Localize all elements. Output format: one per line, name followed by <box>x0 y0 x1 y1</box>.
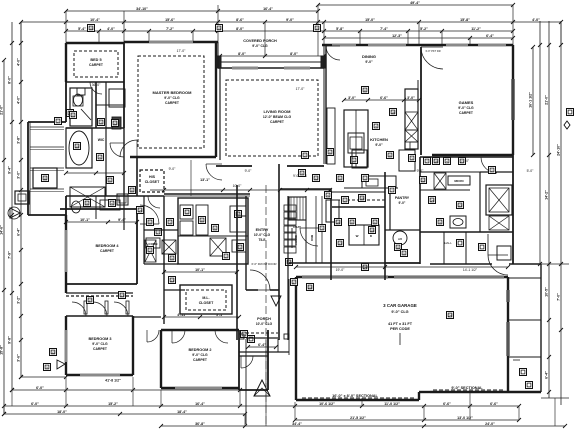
svg-text:4'-0": 4'-0" <box>17 58 21 66</box>
svg-text:CLOSET: CLOSET <box>199 301 214 305</box>
svg-text:3'-8": 3'-8" <box>17 136 21 144</box>
svg-text:12: 12 <box>51 350 55 354</box>
svg-text:3'-2": 3'-2" <box>17 296 21 304</box>
svg-text:13: 13 <box>458 203 462 207</box>
svg-text:9'-4": 9'-4" <box>8 166 12 174</box>
svg-text:10'-0" CLG: 10'-0" CLG <box>256 322 273 326</box>
svg-text:9'-0" CLG: 9'-0" CLG <box>458 106 474 110</box>
svg-text:18: 18 <box>391 110 395 114</box>
svg-text:15'-8": 15'-8" <box>0 345 4 355</box>
svg-text:18'-4": 18'-4" <box>177 410 187 414</box>
svg-text:8'-0": 8'-0" <box>238 52 246 56</box>
svg-text:17'-0": 17'-0" <box>177 49 186 53</box>
svg-text:COAT: COAT <box>293 225 301 229</box>
svg-text:MUD: MUD <box>310 235 314 241</box>
svg-text:CARPET: CARPET <box>89 63 104 67</box>
svg-text:MICRO: MICRO <box>454 179 464 183</box>
svg-text:14'-2": 14'-2" <box>545 190 549 200</box>
svg-text:PORCH: PORCH <box>257 317 271 321</box>
svg-text:14'-1 1/2": 14'-1 1/2" <box>463 268 478 272</box>
svg-text:14: 14 <box>430 198 434 202</box>
svg-text:15'-2": 15'-2" <box>108 402 118 406</box>
svg-text:6'-4": 6'-4" <box>258 343 266 347</box>
svg-text:M.L.: M.L. <box>202 296 209 300</box>
svg-text:HIS: HIS <box>149 175 156 179</box>
svg-text:9'-0": 9'-0" <box>417 169 425 173</box>
svg-text:12'-3": 12'-3" <box>392 34 402 38</box>
svg-text:41'-8 1/2": 41'-8 1/2" <box>105 379 121 383</box>
svg-text:9'-0": 9'-0" <box>286 18 294 22</box>
svg-text:BEDROOM 2: BEDROOM 2 <box>189 348 212 352</box>
svg-text:36'-0": 36'-0" <box>92 83 101 87</box>
svg-text:6'-6": 6'-6" <box>490 402 498 406</box>
svg-text:CARPET: CARPET <box>193 358 208 362</box>
svg-text:CARPET: CARPET <box>270 120 285 124</box>
svg-text:10: 10 <box>370 228 374 232</box>
svg-text:TILE: TILE <box>259 238 266 242</box>
svg-text:11'-0 1/2": 11'-0 1/2" <box>384 402 400 406</box>
svg-text:5'-8": 5'-8" <box>336 27 344 31</box>
svg-text:19: 19 <box>360 196 364 200</box>
svg-text:MASTER BEDROOM: MASTER BEDROOM <box>153 90 193 95</box>
svg-text:8'-0": 8'-0" <box>290 52 298 56</box>
svg-text:41 FT x 31 FT: 41 FT x 31 FT <box>388 322 413 326</box>
svg-text:WIC: WIC <box>98 138 105 142</box>
svg-text:16'-1 1/2": 16'-1 1/2" <box>529 92 533 108</box>
svg-text:CARPET: CARPET <box>165 101 180 105</box>
svg-text:CARPET: CARPET <box>93 347 108 351</box>
svg-text:5'-2": 5'-2" <box>420 27 428 31</box>
svg-text:COMB: COMB <box>148 242 158 246</box>
svg-text:PER CODE: PER CODE <box>390 327 410 331</box>
svg-text:DINING: DINING <box>362 54 376 59</box>
svg-text:3'-0": 3'-0" <box>17 171 21 179</box>
svg-text:7'-2": 7'-2" <box>166 27 174 31</box>
svg-text:12: 12 <box>314 176 318 180</box>
svg-text:4'-0": 4'-0" <box>107 27 115 31</box>
svg-text:49'-4": 49'-4" <box>410 1 420 5</box>
svg-text:BEDROOM 4: BEDROOM 4 <box>96 244 120 248</box>
svg-text:23: 23 <box>460 159 464 163</box>
svg-text:12'-0" BEAM CLG: 12'-0" BEAM CLG <box>263 115 292 119</box>
svg-text:17: 17 <box>88 298 92 302</box>
svg-text:9'-0" CLG: 9'-0" CLG <box>192 353 208 357</box>
svg-text:9'-0": 9'-0" <box>365 60 373 64</box>
svg-text:CLOSET: CLOSET <box>145 180 160 184</box>
svg-text:ENTRY: ENTRY <box>256 228 269 232</box>
svg-text:6'-6": 6'-6" <box>380 96 388 100</box>
svg-text:BENCH: BENCH <box>294 235 298 244</box>
svg-text:13'-0 1/2": 13'-0 1/2" <box>457 416 473 420</box>
svg-text:KITCHEN: KITCHEN <box>370 137 388 142</box>
svg-text:LIVING ROOM: LIVING ROOM <box>264 109 292 114</box>
svg-text:7'-9": 7'-9" <box>8 251 12 259</box>
svg-text:HALL: HALL <box>444 241 452 245</box>
svg-text:13: 13 <box>170 278 174 282</box>
svg-text:13: 13 <box>338 241 342 245</box>
svg-text:10'-1": 10'-1" <box>195 268 205 272</box>
svg-text:10'-4": 10'-4" <box>90 18 100 22</box>
svg-text:BED 5: BED 5 <box>90 58 101 62</box>
svg-text:CARPET: CARPET <box>459 111 474 115</box>
svg-text:GAMES: GAMES <box>459 100 474 105</box>
svg-text:11: 11 <box>396 245 399 249</box>
svg-text:13: 13 <box>120 293 124 297</box>
svg-text:16'-0" x 8'-0" SECTIONAL: 16'-0" x 8'-0" SECTIONAL <box>332 394 378 398</box>
svg-text:3'-0": 3'-0" <box>407 96 415 100</box>
svg-text:8'-0": 8'-0" <box>236 27 244 31</box>
svg-text:12: 12 <box>113 121 117 125</box>
svg-text:9'-0": 9'-0" <box>169 167 177 171</box>
svg-text:15: 15 <box>217 26 221 30</box>
svg-text:4'-0": 4'-0" <box>17 96 21 104</box>
svg-text:W: W <box>356 234 359 238</box>
svg-text:10: 10 <box>75 144 79 148</box>
svg-text:6'-4": 6'-4" <box>17 228 21 236</box>
svg-text:4'-0": 4'-0" <box>532 18 540 22</box>
svg-text:BEDROOM 3: BEDROOM 3 <box>89 337 112 341</box>
svg-text:36'-8": 36'-8" <box>195 422 205 426</box>
svg-text:9'-0" CLG: 9'-0" CLG <box>92 342 108 346</box>
svg-text:6'-0": 6'-0" <box>31 402 39 406</box>
svg-text:3'-0" PKT DR: 3'-0" PKT DR <box>425 49 440 53</box>
svg-text:6'-6": 6'-6" <box>443 402 451 406</box>
svg-text:17: 17 <box>292 280 296 284</box>
svg-text:3 CAR GARAGE: 3 CAR GARAGE <box>383 303 417 308</box>
svg-text:15: 15 <box>89 26 93 30</box>
svg-text:6'-4": 6'-4" <box>545 371 549 379</box>
svg-text:15'-0": 15'-0" <box>365 18 375 22</box>
svg-text:21'-0": 21'-0" <box>0 105 4 115</box>
svg-text:11: 11 <box>43 176 46 180</box>
svg-text:3'-6": 3'-6" <box>17 354 21 362</box>
svg-text:21'-5 1/2": 21'-5 1/2" <box>350 416 366 420</box>
svg-text:14: 14 <box>138 208 142 212</box>
svg-text:PANTRY: PANTRY <box>395 196 410 200</box>
svg-text:9'-0" CLG: 9'-0" CLG <box>164 96 180 100</box>
svg-text:HB: HB <box>398 237 402 241</box>
svg-text:7'-0": 7'-0" <box>557 293 561 301</box>
svg-text:9'-0" CLG: 9'-0" CLG <box>252 44 268 48</box>
svg-text:21: 21 <box>71 113 75 117</box>
svg-text:9'-8": 9'-8" <box>8 336 12 344</box>
svg-text:34'-10": 34'-10" <box>136 7 148 11</box>
svg-text:14'-6": 14'-6" <box>0 225 4 235</box>
svg-text:11'-2": 11'-2" <box>471 27 481 31</box>
svg-text:8'-6": 8'-6" <box>236 18 244 22</box>
svg-text:COVERED PORCH: COVERED PORCH <box>243 39 277 43</box>
svg-text:15'-8": 15'-8" <box>460 18 470 22</box>
svg-text:9'-0": 9'-0" <box>245 169 253 173</box>
svg-text:18: 18 <box>434 159 438 163</box>
svg-text:24'-10": 24'-10" <box>557 144 561 156</box>
svg-text:18'-0": 18'-0" <box>57 410 67 414</box>
svg-text:20: 20 <box>308 285 312 289</box>
svg-text:9'-0" SECTIONAL: 9'-0" SECTIONAL <box>451 386 483 390</box>
svg-text:9'-0": 9'-0" <box>375 143 383 147</box>
svg-text:3'-0": 3'-0" <box>348 96 356 100</box>
svg-text:6'-0": 6'-0" <box>36 386 44 390</box>
svg-text:10'-6 1/2": 10'-6 1/2" <box>319 402 335 406</box>
svg-text:19'-0": 19'-0" <box>336 268 345 272</box>
svg-text:22: 22 <box>421 178 425 182</box>
svg-text:CARPET: CARPET <box>100 249 115 253</box>
svg-text:34'-4": 34'-4" <box>292 422 302 426</box>
svg-text:17'-0": 17'-0" <box>296 87 305 91</box>
svg-text:24'-0": 24'-0" <box>485 422 495 426</box>
svg-text:15'-6": 15'-6" <box>165 18 175 22</box>
svg-text:10'-5": 10'-5" <box>545 287 549 297</box>
svg-text:10'-0" CLG: 10'-0" CLG <box>254 233 271 237</box>
svg-text:21'-0": 21'-0" <box>545 95 549 105</box>
svg-text:7'-4": 7'-4" <box>380 27 388 31</box>
svg-text:24: 24 <box>448 313 452 317</box>
svg-text:16: 16 <box>336 220 340 224</box>
svg-text:5'-0": 5'-0" <box>527 169 535 173</box>
svg-text:9'-4": 9'-4" <box>118 218 126 222</box>
svg-text:8'-0": 8'-0" <box>8 76 12 84</box>
svg-text:13'-1": 13'-1" <box>200 178 210 182</box>
svg-text:15: 15 <box>315 26 319 30</box>
svg-text:9'-0": 9'-0" <box>399 201 406 205</box>
svg-text:16'-4": 16'-4" <box>195 402 205 406</box>
svg-text:10'-1": 10'-1" <box>80 218 90 222</box>
svg-text:6'-4": 6'-4" <box>486 34 494 38</box>
svg-text:6'-0" FRONT DOOR: 6'-0" FRONT DOOR <box>251 262 276 266</box>
svg-text:5'-4": 5'-4" <box>78 27 86 31</box>
svg-text:9'-0" CLG: 9'-0" CLG <box>391 310 408 314</box>
svg-text:16'-4": 16'-4" <box>263 7 273 11</box>
